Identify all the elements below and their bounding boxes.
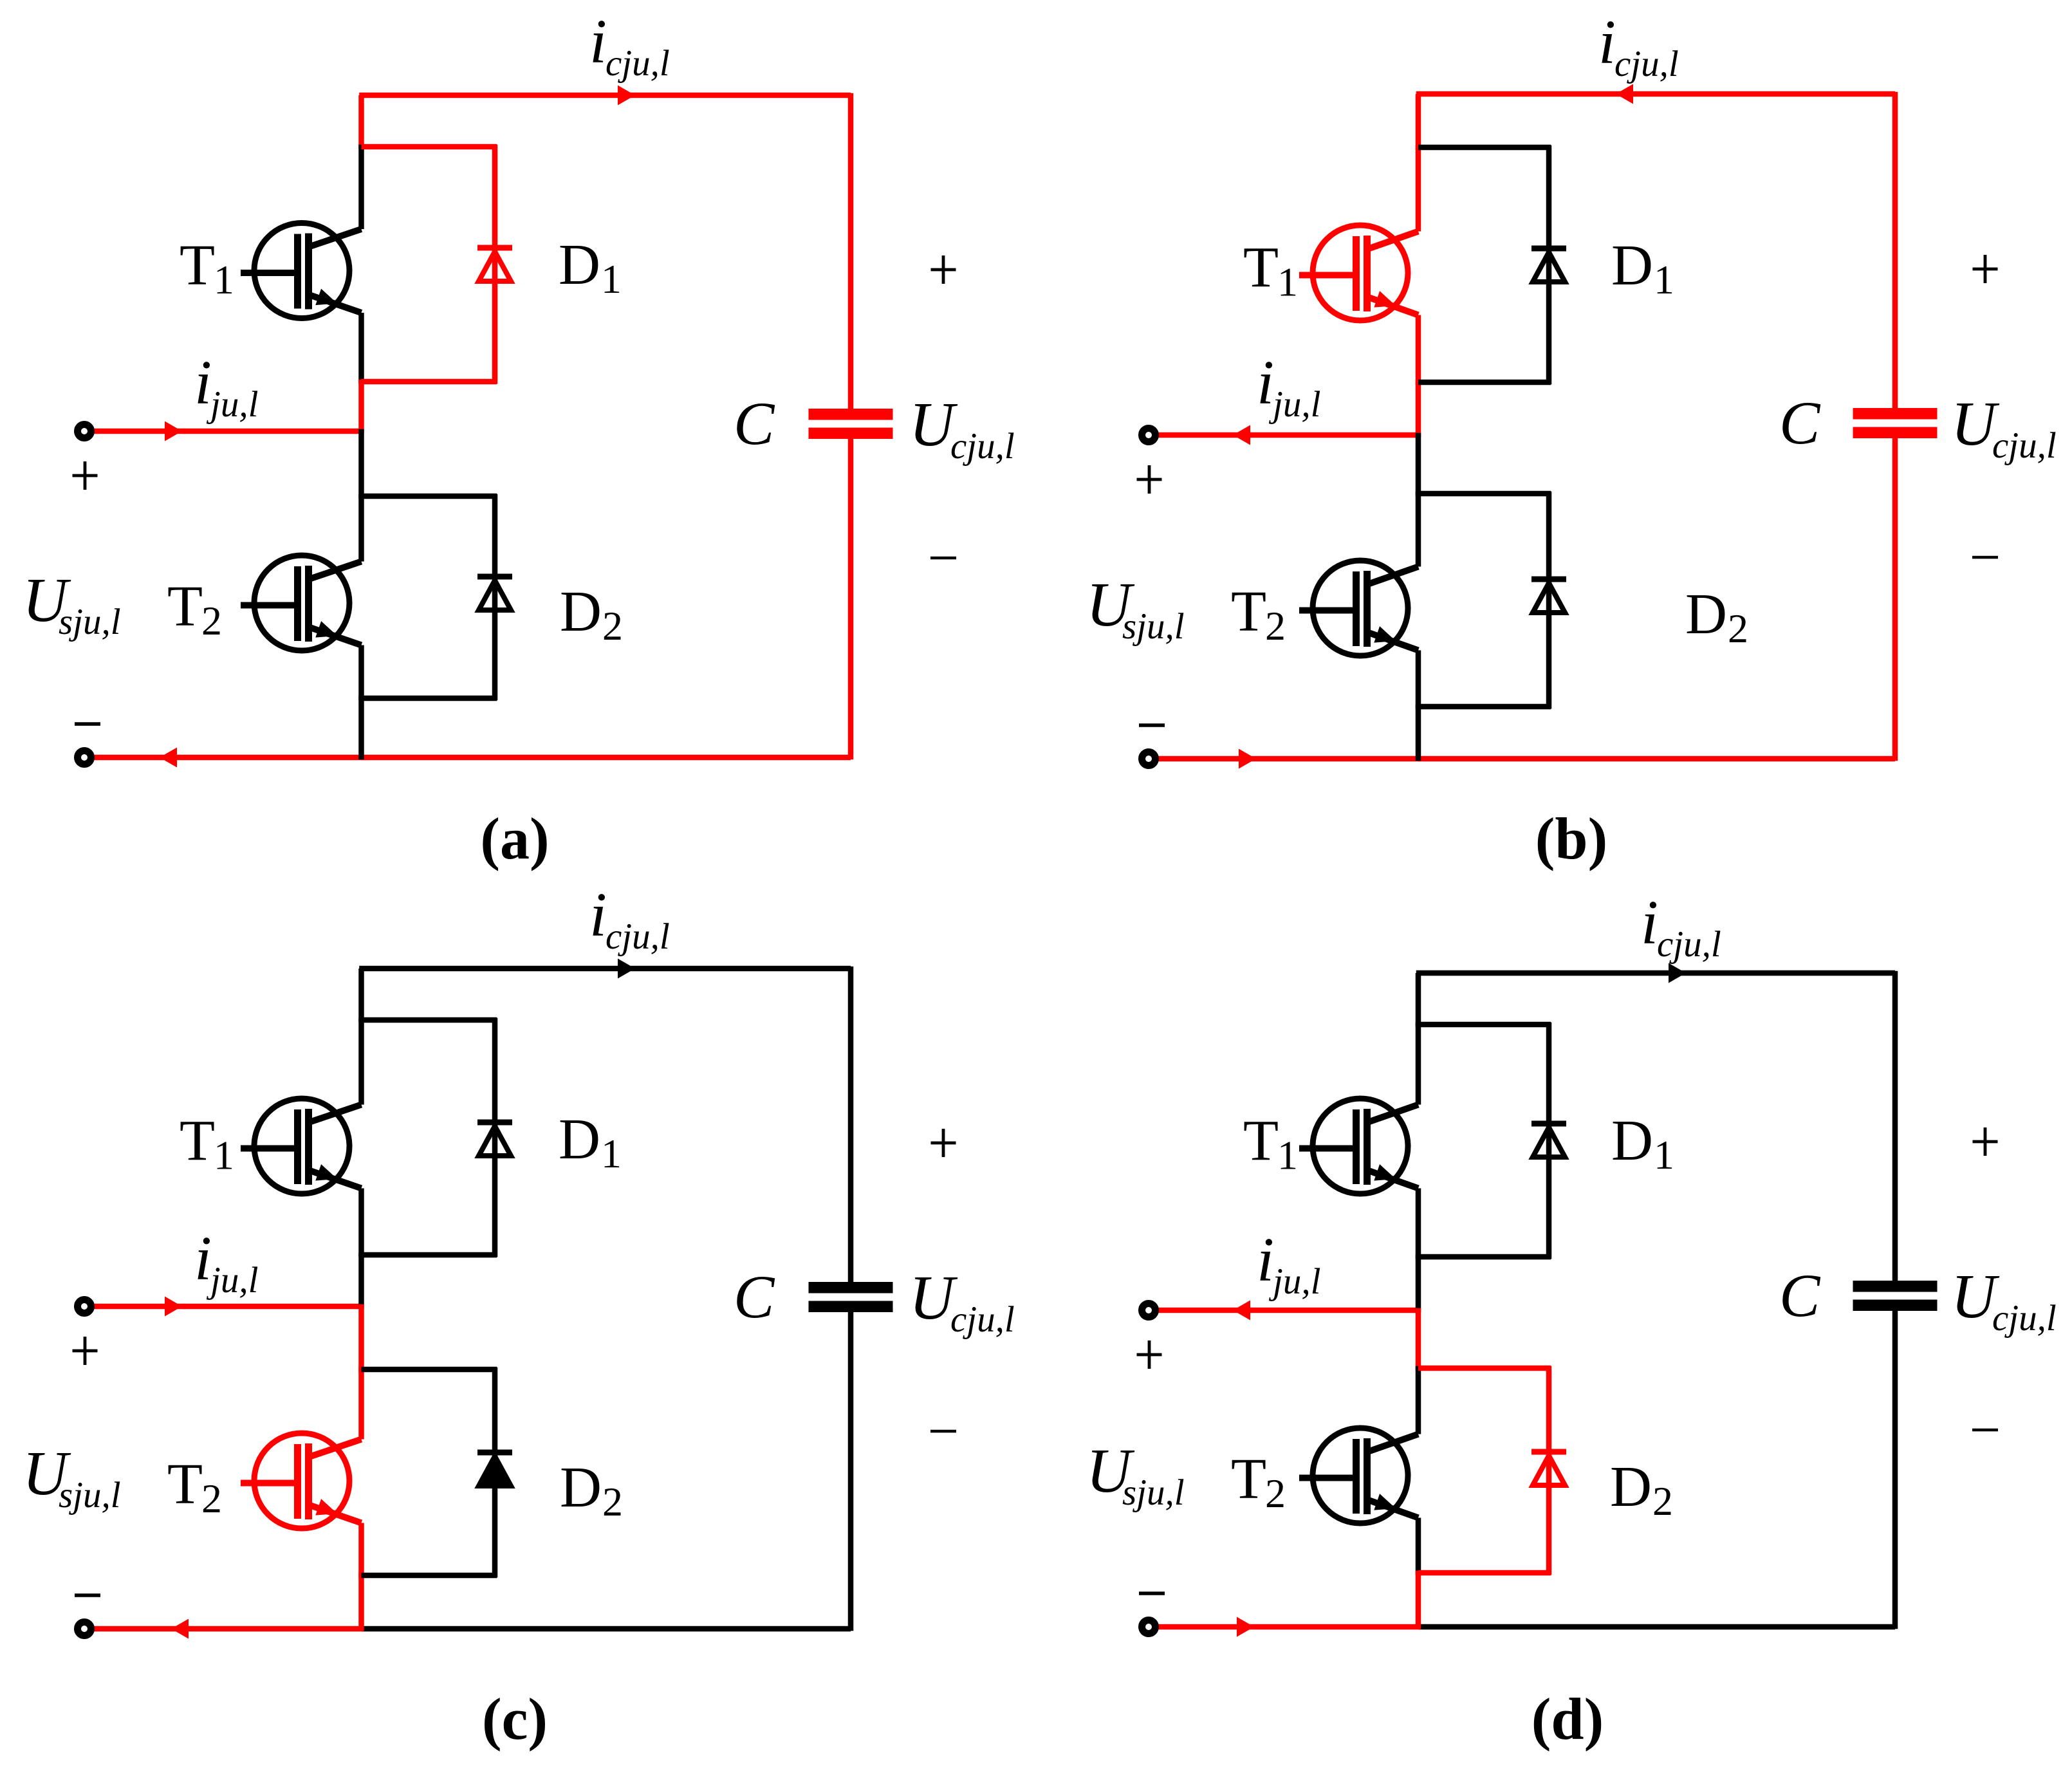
wire: bottom rail left part (b) [1155,756,1420,762]
svg-text:T: T [180,234,215,297]
svg-text:(a): (a) [480,806,549,871]
wire: vertical input node to D2 loop top (b) [1416,433,1421,496]
svg-text:2: 2 [602,603,623,649]
svg-text:T: T [167,1452,203,1516]
wire: vertical T2 emitter to D2 loop bottom (b) [1416,651,1421,709]
svg-text:ju,l: ju,l [1268,384,1320,425]
wire: vertical D1-loop-top to T1 collector (b) [1416,145,1421,232]
wire: vertical D2 loop bottom to bottom rail (c) [358,1573,364,1631]
wire: bottom rail left part (d) [1155,1624,1420,1630]
svg-text:i: i [1598,8,1616,77]
input terminal lower (b) [1142,752,1156,766]
plus sign input (a) [73,461,98,490]
svg-text:2: 2 [201,598,222,644]
wire: top rail node-collector to capacitor (a) [359,93,851,98]
svg-text:i: i [589,7,607,76]
svg-text:ju,l: ju,l [206,1260,258,1301]
wire: vertical top-rail to D1 loop top (d) [1416,973,1421,1026]
input terminal lower (c) [78,1622,91,1636]
input terminal lower (d) [1142,1620,1156,1634]
current arrow i_cju,l (c) [618,959,635,979]
wire: vertical D2-loop-top to T2 collector (a) [358,494,364,562]
svg-text:2: 2 [1265,603,1286,649]
svg-text:1: 1 [601,1131,622,1176]
input terminal upper (c) [78,1300,91,1313]
wire: vertical D2 loop bottom to bottom rail (a) [358,696,364,760]
svg-text:sju,l: sju,l [1122,1472,1185,1513]
plus sign input (d) [1137,1340,1162,1369]
minus sign capacitor (b) [1972,556,1998,559]
wire: vertical input node to D2 loop top (d) [1416,1308,1421,1371]
wire: D2 loop top horizontal (d) [1418,1366,1551,1371]
current arrow i_ju,l (c) [165,1297,182,1317]
wire: D2 loop bottom horizontal (c) [362,1573,497,1579]
wire: vertical D1 loop bottom to input node (d) [1416,1255,1421,1313]
minus sign input (b) [1139,723,1165,727]
diode D1 (d) [1531,1124,1566,1157]
svg-text:i: i [194,1224,212,1293]
svg-text:2: 2 [1728,606,1748,651]
current arrow i_cju,l (a) [618,86,635,106]
wire: vertical T1 emitter to D1 loop bottom (c) [358,1189,364,1257]
wire: D1 loop bottom horizontal (c) [362,1252,497,1258]
minus sign input (d) [1139,1591,1165,1595]
minus sign capacitor (a) [930,557,956,560]
svg-text:1: 1 [601,256,622,302]
wire: bottom rail right part (b) [1418,756,1895,762]
svg-text:cju,l: cju,l [606,43,670,84]
svg-text:i: i [1641,888,1658,957]
svg-text:cju,l: cju,l [950,426,1015,467]
svg-text:ju,l: ju,l [1268,1261,1320,1302]
current arrow i_ju,l (a) [165,422,182,441]
svg-text:(b): (b) [1535,806,1607,871]
wire: vertical D1-loop-top to T1 collector (d) [1416,1023,1421,1105]
svg-text:1: 1 [1277,1133,1298,1178]
svg-text:D: D [1610,1455,1652,1519]
wire: right rail down to capacitor (d) [1892,971,1898,1281]
wire: top rail node-collector to capacitor (b) [1416,91,1895,97]
wire: vertical T1 emitter to D1 loop bottom (b) [1416,315,1421,385]
wire: top rail node-collector to capacitor (d) [1416,970,1895,976]
svg-text:sju,l: sju,l [59,1475,121,1516]
wire: vertical D2 loop bottom to bottom rail (d) [1416,1571,1421,1629]
svg-text:1: 1 [214,257,234,302]
svg-text:2: 2 [201,1476,222,1521]
svg-text:i: i [589,880,607,949]
minus sign capacitor (c) [930,1430,956,1433]
svg-text:C: C [1779,1261,1821,1330]
wire: capacitor to bottom rail (d) [1892,1311,1898,1629]
svg-text:T: T [1243,1109,1279,1173]
wire: bottom rail left part (c) [91,1626,364,1632]
wire: right rail down to capacitor (a) [848,93,854,409]
diode D2 (d) [1531,1452,1566,1485]
wire: vertical input node to D2 loop top (a) [358,429,364,499]
svg-text:D: D [560,1456,602,1519]
diode D2 (a) [477,577,512,610]
transistor T2 (a) (IGBT) [241,555,362,651]
wire: vertical top-rail to D1 loop top (b) [1416,94,1421,149]
wire: vertical T2 emitter to D2 loop bottom (c) [358,1523,364,1578]
current arrow i_cju,l (d) [1669,963,1686,983]
plus sign capacitor (c) [931,1129,956,1157]
svg-text:2: 2 [1652,1478,1673,1524]
current arrow bottom rail (b) [1239,749,1256,769]
wire: vertical top-rail to D1 loop top (a) [358,95,364,149]
minus sign input (a) [75,722,100,726]
transistor T2 (c) (IGBT) [241,1433,362,1528]
wire: vertical D1 loop bottom to input node (b) [1416,380,1421,438]
current arrow bottom rail (a) [160,748,177,768]
svg-text:ju,l: ju,l [206,384,258,425]
wire: input i_ju,l (d) [1155,1308,1420,1313]
plus sign capacitor (b) [1973,255,1998,283]
wire: vertical D2-loop-top to T2 collector (b) [1416,492,1421,567]
wire: D1 loop top horizontal (a) [362,144,497,150]
svg-text:(d): (d) [1531,1686,1604,1752]
current arrow bottom rail (c) [171,1619,189,1639]
svg-text:C: C [1779,389,1821,457]
svg-text:1: 1 [1654,1132,1674,1178]
wire: D2 branch vertical (d) [1546,1366,1552,1575]
wire: right rail down to capacitor (c) [848,967,854,1282]
current arrow i_ju,l (d) [1233,1301,1250,1321]
svg-text:T: T [1231,1447,1266,1511]
plus sign input (b) [1137,465,1162,494]
svg-text:1: 1 [214,1133,234,1178]
wire: vertical top-rail to D1 loop top (c) [358,969,364,1022]
transistor T1 (c) (IGBT) [241,1099,362,1194]
wire: input i_ju,l (b) [1155,432,1420,438]
wire: D1 branch vertical (d) [1546,1023,1552,1259]
svg-text:i: i [194,348,212,417]
capacitor C (d) [1853,1281,1938,1292]
wire: D2 branch vertical (b) [1546,492,1552,709]
wire: D1 loop top horizontal (d) [1418,1022,1551,1028]
wire: vertical D2 loop bottom to bottom rail (b) [1416,705,1421,761]
svg-text:cju,l: cju,l [1657,924,1721,965]
wire: D1 branch vertical (c) [492,1018,498,1257]
plus sign input (c) [73,1337,98,1365]
svg-text:T: T [167,575,203,638]
wire: vertical D1 loop bottom to input node (a) [358,380,364,434]
wire: D2 loop bottom horizontal (a) [362,696,497,701]
diode D2 (b) [1531,579,1566,613]
input terminal upper (a) [78,425,91,438]
wire: input i_ju,l (c) [91,1304,364,1310]
svg-text:i: i [1257,1225,1274,1294]
wire: D1 branch vertical (b) [1546,145,1552,385]
wire: bottom rail right part (c) [362,1626,851,1632]
svg-text:cju,l: cju,l [950,1299,1015,1340]
wire: D2 loop top horizontal (c) [362,1367,497,1373]
svg-text:i: i [1257,348,1274,417]
svg-text:sju,l: sju,l [1122,606,1185,647]
capacitor C (b) [1853,408,1938,420]
wire: D1 loop bottom horizontal (d) [1418,1254,1551,1260]
wire: capacitor to bottom rail (b) [1892,438,1898,761]
wire: input i_ju,l (a) [91,429,364,434]
current arrow bottom rail (d) [1237,1617,1254,1637]
wire: bottom rail right part (a) [362,755,851,761]
current arrow i_ju,l (b) [1233,425,1250,445]
wire: D1 loop top horizontal (c) [362,1017,497,1023]
plus sign capacitor (a) [931,255,956,284]
wire: top rail node-collector to capacitor (c) [359,966,851,972]
plus sign capacitor (d) [1973,1127,1998,1156]
transistor T1 (a) (IGBT) [241,223,362,319]
input terminal upper (d) [1142,1304,1156,1317]
svg-text:2: 2 [602,1479,623,1525]
capacitor C (c) [809,1282,893,1293]
transistor T2 (b) (IGBT) [1299,561,1418,656]
svg-text:2: 2 [1265,1470,1286,1516]
svg-text:C: C [734,1263,775,1331]
capacitor C (a) [809,409,893,420]
wire: D1 loop top horizontal (b) [1418,145,1551,151]
current arrow i_cju,l (b) [1616,84,1633,104]
svg-text:cju,l: cju,l [1614,44,1679,84]
wire: vertical D1 loop bottom to input node (c) [358,1253,364,1309]
svg-text:D: D [559,1108,600,1171]
svg-text:D: D [1611,234,1653,297]
input terminal upper (b) [1142,429,1156,442]
svg-text:cju,l: cju,l [606,916,670,957]
diode D1 (c) [477,1122,512,1156]
transistor T1 (b) (IGBT) [1299,225,1418,320]
svg-text:D: D [560,580,602,644]
wire: vertical D1-loop-top to T1 collector (a) [358,145,364,229]
wire: D2 branch vertical (a) [492,494,498,701]
wire: vertical D2-loop-top to T2 collector (d) [1416,1366,1421,1434]
svg-text:D: D [559,233,600,297]
wire: vertical input node to D2 loop top (c) [358,1304,364,1372]
transistor T1 (d) (IGBT) [1299,1099,1418,1194]
svg-text:T: T [1231,580,1266,644]
svg-text:(c): (c) [482,1686,548,1752]
minus sign capacitor (d) [1972,1429,1998,1432]
svg-text:1: 1 [1277,259,1298,305]
input terminal lower (a) [78,751,91,765]
svg-text:cju,l: cju,l [1992,1298,2057,1339]
wire: capacitor to bottom rail (c) [848,1312,854,1631]
wire: D1 branch vertical (a) [492,145,498,384]
wire: vertical T2 emitter to D2 loop bottom (a) [358,645,364,701]
wire: D1 loop bottom horizontal (a) [362,379,497,385]
svg-text:T: T [1243,236,1279,300]
wire: bottom rail left part (a) [91,755,364,761]
wire: D2 loop top horizontal (a) [362,494,497,499]
diode D1 (b) [1531,248,1566,282]
wire: bottom rail right part (d) [1418,1624,1895,1630]
wire: right rail down to capacitor (b) [1892,92,1898,408]
diode D2 (c) [477,1452,512,1486]
wire: D2 loop bottom horizontal (b) [1418,704,1551,710]
svg-text:C: C [734,389,775,458]
wire: D2 loop bottom horizontal (d) [1418,1570,1551,1576]
svg-text:D: D [1685,582,1727,646]
wire: vertical T1 emitter to D1 loop bottom (a) [358,313,364,384]
wire: D2 branch vertical (c) [492,1368,498,1578]
wire: vertical T2 emitter to D2 loop bottom (d) [1416,1518,1421,1575]
transistor T2 (d) (IGBT) [1299,1428,1418,1523]
wire: D2 loop top horizontal (b) [1418,491,1551,497]
wire: vertical D1-loop-top to T1 collector (c) [358,1018,364,1105]
svg-text:D: D [1611,1109,1653,1173]
svg-text:cju,l: cju,l [1992,425,2057,466]
diode D1 (a) [477,248,512,281]
svg-text:sju,l: sju,l [59,602,121,642]
svg-text:1: 1 [1654,257,1674,302]
wire: vertical T1 emitter to D1 loop bottom (d) [1416,1189,1421,1259]
wire: capacitor to bottom rail (a) [848,439,854,759]
minus sign input (c) [75,1593,100,1597]
svg-text:T: T [180,1109,215,1173]
wire: vertical D2-loop-top to T2 collector (c) [358,1368,364,1440]
wire: D1 loop bottom horizontal (b) [1418,380,1551,385]
